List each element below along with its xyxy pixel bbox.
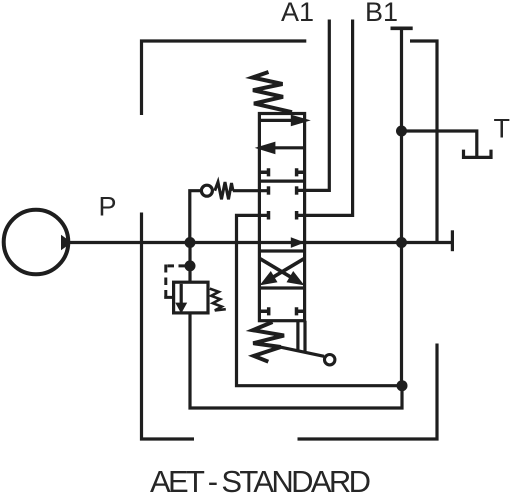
pump P1 bbox=[4, 210, 69, 275]
valve divider 1 bbox=[259, 180, 304, 183]
junction dot D5 bbox=[397, 380, 408, 391]
section1 arrow right bbox=[261, 119, 293, 122]
check valve CV1 ball bbox=[201, 185, 212, 196]
frame top-right segment bbox=[410, 41, 437, 243]
crossed arrow to bottom-right bbox=[260, 259, 292, 278]
svg-text:AET - STANDARD: AET - STANDARD bbox=[150, 464, 371, 497]
port tick main line end bbox=[451, 230, 454, 251]
blocked port row1 right bbox=[297, 168, 303, 176]
port crossbar row2 right bbox=[295, 186, 299, 194]
section1 arrow left bbox=[273, 146, 303, 149]
svg-text:P: P bbox=[99, 192, 117, 222]
blocked port row1 left bbox=[261, 168, 269, 176]
frame bottom-left segment bbox=[142, 213, 195, 440]
valve top spring bbox=[253, 72, 293, 112]
frame right-bottom segment bbox=[298, 344, 438, 440]
valve divider 3 bbox=[259, 286, 304, 289]
main flow arrow through valve bbox=[291, 237, 305, 248]
svg-text:B1: B1 bbox=[365, 0, 398, 27]
lever knob bbox=[325, 355, 335, 365]
crossed arrow to bottom-left bbox=[272, 259, 304, 278]
junction dot D4 bbox=[396, 237, 407, 248]
valve bottom spring bbox=[253, 322, 284, 362]
plugged port cap above T line bbox=[391, 26, 413, 30]
check valve CV1 spring bbox=[215, 182, 233, 199]
frame top-left segment bbox=[142, 41, 307, 115]
pilot dashed line to relief valve bbox=[164, 265, 186, 298]
wire P to check valve bbox=[190, 191, 200, 243]
relief valve RV1 body bbox=[174, 282, 208, 313]
wire B1 bbox=[297, 20, 353, 216]
port crossbar row3 right bbox=[295, 211, 299, 220]
wire A1 bbox=[297, 20, 330, 191]
junction dot D3 bbox=[396, 126, 407, 137]
wire relief valve drain to junction D5 bbox=[190, 314, 402, 409]
port crossbar row2 left bbox=[267, 186, 271, 194]
relief valve RV1 internal arrow bbox=[180, 284, 183, 303]
wire T drain vertical bbox=[400, 28, 403, 385]
blocked port row4 left bbox=[261, 307, 269, 315]
relief valve RV1 spring bbox=[210, 289, 226, 311]
wire P line down to relief valve bbox=[188, 243, 191, 283]
svg-text:T: T bbox=[494, 114, 511, 144]
svg-text:A1: A1 bbox=[281, 0, 314, 27]
wire branch to tank bbox=[402, 131, 477, 157]
junction dot D1 bbox=[185, 237, 196, 248]
lever arm bbox=[277, 346, 324, 356]
wire check valve to valve port bbox=[233, 189, 269, 192]
port crossbar row3 left bbox=[267, 211, 271, 220]
directional valve V1 body bbox=[259, 114, 304, 321]
junction dot D2 bbox=[185, 260, 196, 271]
valve divider 2 bbox=[259, 249, 304, 252]
wire valve port row3-left down to junction D5 bbox=[237, 215, 398, 385]
tank symbol bbox=[464, 150, 492, 158]
wire main pressure line P bbox=[70, 241, 452, 244]
lever stem lines bbox=[298, 321, 305, 354]
blocked port row4 right bbox=[297, 307, 304, 315]
